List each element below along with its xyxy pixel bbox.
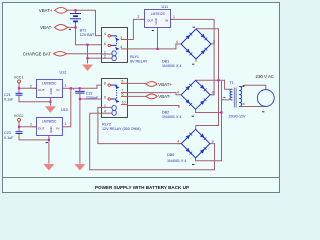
svg-text:VCC1: VCC1 — [14, 76, 24, 80]
svg-text:LM7805C: LM7805C — [42, 120, 57, 124]
svg-text:1: 1 — [104, 104, 106, 108]
svg-text:10: 10 — [122, 101, 126, 105]
svg-text:4: 4 — [177, 139, 179, 143]
svg-text:VBAT-: VBAT- — [158, 94, 171, 99]
svg-text:CHARGE BAT: CHARGE BAT — [23, 51, 52, 56]
svg-text:GND: GND — [49, 88, 53, 94]
svg-text:OUT: OUT — [38, 88, 45, 92]
svg-text:2: 2 — [30, 123, 32, 127]
svg-text:C23: C23 — [4, 131, 11, 135]
svg-text:GND: GND — [49, 126, 53, 132]
svg-text:T1: T1 — [230, 81, 234, 85]
svg-text:2: 2 — [30, 84, 32, 88]
svg-text:IN: IN — [165, 19, 168, 23]
svg-text:4: 4 — [176, 40, 178, 44]
svg-text:VBAT-: VBAT- — [40, 25, 53, 30]
svg-text:IN: IN — [56, 88, 59, 92]
svg-text:DB2: DB2 — [162, 110, 169, 114]
svg-text:+: + — [73, 87, 75, 91]
svg-text:0.1uF: 0.1uF — [4, 97, 14, 101]
svg-text:1N4001 X 4: 1N4001 X 4 — [167, 159, 186, 163]
svg-text:3: 3 — [212, 139, 214, 143]
svg-text:8: 8 — [104, 82, 106, 86]
svg-text:LM7812C: LM7812C — [151, 12, 166, 16]
svg-text:1: 1 — [65, 122, 67, 126]
svg-text:RLY1: RLY1 — [130, 55, 139, 59]
svg-text:3: 3 — [120, 36, 122, 40]
svg-text:POWER SUPPLY WITH BATTERY BACK: POWER SUPPLY WITH BATTERY BACK UP — [95, 185, 189, 190]
svg-text:9: 9 — [104, 95, 106, 99]
svg-text:3: 3 — [212, 91, 214, 95]
svg-text:4: 4 — [177, 91, 179, 95]
svg-text:OUT: OUT — [38, 126, 45, 130]
svg-text:1N4001 X 4: 1N4001 X 4 — [162, 64, 181, 68]
svg-text:12V BAT: 12V BAT — [80, 33, 95, 37]
svg-text:2: 2 — [104, 55, 106, 59]
svg-text:1: 1 — [65, 84, 67, 88]
svg-text:2: 2 — [138, 15, 140, 19]
svg-text:4: 4 — [120, 45, 122, 49]
svg-text:U12: U12 — [60, 71, 67, 75]
svg-text:VCC2: VCC2 — [14, 114, 24, 118]
svg-text:DB0: DB0 — [167, 153, 174, 157]
svg-text:C21: C21 — [4, 93, 11, 97]
svg-text:4: 4 — [104, 110, 106, 114]
svg-text:1: 1 — [173, 15, 175, 19]
svg-text:GND: GND — [154, 18, 158, 24]
svg-text:LM7805C: LM7805C — [42, 81, 57, 85]
svg-text:VBAT+: VBAT+ — [158, 82, 172, 87]
svg-text:6: 6 — [122, 93, 124, 97]
svg-text:C22: C22 — [86, 92, 93, 96]
svg-text:OUT: OUT — [147, 19, 154, 23]
svg-text:U13: U13 — [61, 108, 68, 112]
svg-text:1N4001 X 4: 1N4001 X 4 — [162, 115, 181, 119]
svg-text:6V RELAY: 6V RELAY — [130, 59, 148, 63]
svg-text:6: 6 — [104, 42, 106, 46]
svg-text:230 V AC: 230 V AC — [256, 74, 275, 79]
svg-text:5: 5 — [122, 79, 124, 83]
svg-text:IN: IN — [56, 126, 59, 130]
svg-text:DB1: DB1 — [162, 59, 169, 63]
svg-text:4: 4 — [104, 32, 106, 36]
svg-text:3: 3 — [213, 40, 215, 44]
svg-text:230/0-12V: 230/0-12V — [229, 115, 247, 119]
svg-text:12V RELAY (300 OHM): 12V RELAY (300 OHM) — [102, 127, 141, 131]
svg-text:2200uF: 2200uF — [86, 96, 99, 100]
svg-text:0.1uF: 0.1uF — [4, 136, 14, 140]
svg-text:VBAT+: VBAT+ — [39, 8, 53, 13]
svg-text:U11: U11 — [162, 5, 169, 9]
svg-text:RLY2: RLY2 — [102, 123, 111, 127]
